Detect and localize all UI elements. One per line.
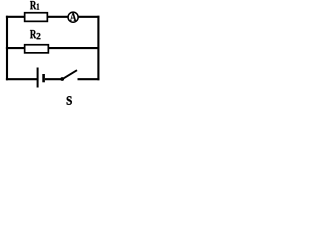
ammeter label A [70, 13, 76, 21]
label R1 subscript 1 [37, 4, 39, 10]
wire bottom left [6, 78, 38, 80]
wire top [6, 16, 100, 18]
wire bottom mid (battery to switch) [45, 78, 62, 80]
wire left [6, 16, 8, 81]
label R1 [30, 1, 36, 9]
label R2 [30, 30, 36, 38]
ammeter U1 circle [68, 12, 78, 22]
resistor R1 [25, 13, 48, 22]
wire bottom right [78, 78, 100, 80]
label R2 subscript 2 [37, 33, 41, 39]
wire right [97, 16, 99, 81]
label S [67, 96, 72, 105]
resistor R2 [25, 45, 49, 53]
battery long plate [37, 68, 39, 88]
battery short plate [42, 74, 45, 82]
switch S pivot dot [60, 77, 64, 81]
switch S lever [62, 70, 77, 79]
wire middle (R2 branch) [6, 47, 99, 49]
